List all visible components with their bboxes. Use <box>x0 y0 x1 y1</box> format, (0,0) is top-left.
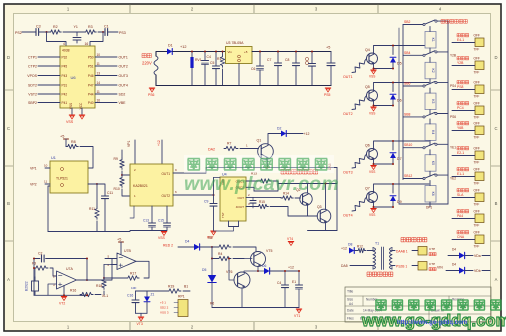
capacitor C9 electrolytic <box>311 52 313 64</box>
resistor R2 <box>49 30 61 34</box>
svg-text:U1: U1 <box>51 156 56 160</box>
svg-text:Y6B: Y6B <box>457 126 464 130</box>
node B <box>102 31 104 33</box>
svg-text:TLP521: TLP521 <box>56 177 68 181</box>
wire emitter <box>373 101 375 106</box>
wire gnd rail U1 <box>48 231 130 233</box>
svg-text:VSS: VSS <box>369 75 375 79</box>
wire gnd rail <box>156 85 331 87</box>
pad E1-1 <box>475 172 484 181</box>
svg-text:TFF: TFF <box>474 182 480 186</box>
resistor R19 <box>167 289 181 293</box>
svg-text:R9: R9 <box>114 157 118 161</box>
U6 right pins OUT1 OUT2 OUT3 OUT4 SD2 VBE <box>95 56 117 58</box>
wire mesh bottom <box>399 203 448 205</box>
relay K5 <box>425 155 436 172</box>
svg-text:SD2 2: SD2 2 <box>160 306 169 310</box>
svg-text:4OUT: 4OUT <box>236 205 244 209</box>
diode D6 <box>390 94 396 99</box>
svg-text:TFF: TFF <box>474 245 480 249</box>
pad E2-1 <box>475 151 484 160</box>
svg-text:E1: E1 <box>292 280 296 284</box>
wire <box>136 312 148 314</box>
U1 right pin <box>88 183 97 185</box>
svg-text:R6: R6 <box>210 302 214 306</box>
diode VD4 <box>459 267 465 273</box>
pad SLA <box>475 193 484 202</box>
svg-text:+5: +5 <box>244 50 248 54</box>
ground VT1 <box>296 308 302 310</box>
svg-text:C: C <box>7 126 10 131</box>
connector label E1-1 <box>457 168 469 171</box>
wire <box>270 270 299 272</box>
ground PS6 <box>149 87 155 89</box>
trimmer RP1 <box>178 300 188 317</box>
svg-text:SB8: SB8 <box>404 112 411 116</box>
svg-text:CTP: CTP <box>429 262 435 266</box>
svg-text:+12: +12 <box>157 140 161 146</box>
transistor Q1 <box>258 144 274 160</box>
wire to pad PA4 <box>452 218 475 220</box>
wire <box>90 32 103 46</box>
svg-text:PS2: PS2 <box>15 31 22 35</box>
svg-text:OFF: OFF <box>474 34 480 38</box>
svg-text:10: 10 <box>97 53 101 57</box>
wire T1 sec2 <box>392 265 395 267</box>
resistor R15 <box>257 204 268 208</box>
diode D5 vertical <box>211 259 213 277</box>
ground VSS U5 <box>161 231 167 233</box>
svg-text:D1: D1 <box>168 44 173 48</box>
ground PS7 <box>211 230 217 232</box>
resistor R18 <box>102 278 106 289</box>
svg-text:VSS: VSS <box>66 120 74 124</box>
wire <box>161 140 163 164</box>
capacitor C13 <box>149 222 156 224</box>
base resistor Q6 <box>352 156 365 168</box>
wire <box>80 147 93 169</box>
svg-text:SB4: SB4 <box>404 51 411 55</box>
wire U7A pwr <box>63 286 65 296</box>
wire emitter <box>373 202 375 207</box>
svg-text:OUT2: OUT2 <box>161 194 170 198</box>
red text 信号发生器 <box>367 272 393 276</box>
svg-text:VSS: VSS <box>369 112 375 116</box>
wire +12 rail <box>173 51 226 53</box>
U5 right pin OUT2 <box>173 194 186 196</box>
svg-text:C6: C6 <box>251 67 255 71</box>
svg-text:B2022: B2022 <box>25 281 29 291</box>
wire long horizontal <box>206 167 337 169</box>
connector label SLA <box>457 189 469 192</box>
wire <box>97 184 105 196</box>
svg-text:TFF: TFF <box>474 71 480 75</box>
svg-text:P43: P43 <box>62 74 68 78</box>
varistor RV1 <box>190 57 193 68</box>
svg-text:YE2: YE2 <box>450 177 456 181</box>
svg-text:P31: P31 <box>62 83 68 87</box>
connector label PC4 <box>457 102 469 105</box>
svg-text:KA2B021: KA2B021 <box>133 184 148 188</box>
diode D7 <box>390 153 396 158</box>
wire to pad SLA <box>452 197 475 199</box>
svg-text:+12: +12 <box>288 266 294 270</box>
U4 bottom pins <box>228 221 230 227</box>
relay K1 <box>425 32 436 49</box>
wire to pad Y2B <box>452 65 475 67</box>
svg-text:VBE: VBE <box>119 101 127 105</box>
svg-text:VST2: VST2 <box>28 92 37 96</box>
svg-text:DAAB 1: DAAB 1 <box>396 249 408 253</box>
capacitor C15 <box>164 222 171 224</box>
svg-text:B: B <box>7 201 10 206</box>
svg-text:OFF: OFF <box>474 102 480 106</box>
svg-text:P50: P50 <box>88 55 94 59</box>
svg-text:A: A <box>7 277 10 282</box>
wire to pad PC4 <box>452 110 475 112</box>
wire <box>47 32 67 46</box>
pad E4-1 <box>475 38 484 47</box>
svg-text:SB10: SB10 <box>404 143 412 147</box>
diode D6 <box>258 270 264 272</box>
transistor Q7 <box>367 192 378 203</box>
ground <box>371 106 377 108</box>
svg-text:http://www.go-gddq.com: http://www.go-gddq.com <box>397 320 467 326</box>
wire bottom run <box>308 230 338 232</box>
svg-text:PS6: PS6 <box>450 115 456 119</box>
svg-text:D4: D4 <box>452 247 456 251</box>
svg-text:PS3: PS3 <box>119 31 126 35</box>
transistor VT5 <box>251 252 266 267</box>
svg-text:P41: P41 <box>62 101 68 105</box>
svg-text:VSS 3: VSS 3 <box>160 311 169 315</box>
svg-text:R11: R11 <box>89 207 95 211</box>
base resistor Q7 <box>352 199 365 211</box>
svg-text:E2-1: E2-1 <box>457 151 464 155</box>
op-amp U7B <box>117 253 136 270</box>
svg-text:VDa: VDa <box>474 254 481 258</box>
pad CNA <box>475 235 484 244</box>
svg-text:Y2B: Y2B <box>457 61 464 65</box>
svg-text:OFF: OFF <box>474 210 480 214</box>
AC source label <box>142 54 151 58</box>
regulator U3 78L05A <box>226 47 253 64</box>
svg-text:TFF: TFF <box>474 203 480 207</box>
wire feedback <box>86 259 88 281</box>
svg-text:TFF: TFF <box>474 48 480 52</box>
capacitor C17 <box>284 271 286 285</box>
svg-text:R15: R15 <box>259 200 265 204</box>
connector label E4-1 <box>457 34 469 37</box>
svg-text:Y2B: Y2B <box>450 53 456 57</box>
wire <box>152 227 167 231</box>
svg-text:B: B <box>495 201 498 206</box>
svg-text:P40: P40 <box>88 101 94 105</box>
wire U7A out <box>77 279 88 281</box>
fuse F1 <box>154 56 158 75</box>
capacitor C10a <box>330 52 332 64</box>
svg-text:OUT2: OUT2 <box>343 112 353 116</box>
svg-text:PS2B 1: PS2B 1 <box>396 264 407 268</box>
wire <box>134 140 136 164</box>
pad CN2 <box>418 262 427 271</box>
wire to pad E1-1 <box>452 176 475 178</box>
wire collector <box>374 46 430 54</box>
watermark center line1 <box>184 155 334 173</box>
svg-text:SLA: SLA <box>457 193 464 197</box>
svg-text:PS6: PS6 <box>148 93 155 97</box>
svg-text:R19: R19 <box>168 285 174 289</box>
svg-text:K6: K6 <box>431 192 435 196</box>
svg-text:RV1: RV1 <box>195 58 202 62</box>
svg-text:P45: P45 <box>62 64 68 68</box>
svg-text:C9: C9 <box>204 200 208 204</box>
svg-text:OFF: OFF <box>474 122 480 126</box>
svg-text:OFF: OFF <box>474 168 480 172</box>
U1 left pins VP1 VP2 <box>45 167 50 169</box>
pad PS8 <box>475 85 484 94</box>
svg-text:OUT1: OUT1 <box>343 75 353 79</box>
wire <box>39 31 49 33</box>
svg-text:VP1: VP1 <box>127 140 131 147</box>
svg-text:U6: U6 <box>71 75 77 80</box>
wire +5 rail <box>252 51 331 53</box>
svg-text:CTP: CTP <box>429 247 435 251</box>
svg-text:OUT: OUT <box>237 196 244 200</box>
svg-text:PC4: PC4 <box>457 106 464 110</box>
svg-text:D: D <box>494 55 497 60</box>
svg-text:220V: 220V <box>142 61 152 66</box>
connector label CNA <box>457 231 469 234</box>
svg-text:C: C <box>494 126 497 131</box>
svg-text:D6: D6 <box>262 264 266 268</box>
wire <box>200 246 213 248</box>
svg-text:D8: D8 <box>348 243 352 247</box>
wire U7B out <box>136 261 149 278</box>
wire diode branch <box>392 184 394 193</box>
svg-text:R12: R12 <box>357 245 363 249</box>
wire <box>240 148 259 150</box>
wire VT5 collector <box>244 258 252 260</box>
wire U1 bottom <box>48 186 50 232</box>
wire ref rail <box>136 290 169 292</box>
svg-text:SB6: SB6 <box>404 82 411 86</box>
svg-text:D: D <box>7 55 10 60</box>
svg-text:VP2: VP2 <box>30 183 37 187</box>
power +5 U7B <box>119 241 124 243</box>
wire U7B in+ <box>105 258 117 260</box>
svg-text:P47: P47 <box>88 83 94 87</box>
svg-text:C16: C16 <box>127 294 133 298</box>
wire Q1 collector <box>268 134 281 145</box>
svg-text:4038: 4038 <box>62 49 70 53</box>
diode D1 <box>167 49 172 55</box>
wire <box>465 270 474 272</box>
svg-text:SD2: SD2 <box>119 92 126 96</box>
svg-text:C11: C11 <box>107 191 113 195</box>
wire diode branch <box>392 141 394 150</box>
wire OUT2 run <box>186 194 214 196</box>
svg-text:Vin: Vin <box>228 50 233 54</box>
resistor R12 <box>355 250 358 252</box>
svg-text:R18: R18 <box>96 284 102 288</box>
base resistor Q5 <box>352 98 365 110</box>
transistor VT6 <box>234 272 250 288</box>
svg-text:PS8: PS8 <box>457 85 464 89</box>
svg-text:K5: K5 <box>431 161 435 165</box>
svg-text:CNA: CNA <box>457 235 465 239</box>
svg-text:OUT2: OUT2 <box>119 64 128 68</box>
svg-text:VPOS: VPOS <box>27 74 37 78</box>
watermark bottom line1 <box>376 300 387 310</box>
capacitor C16 <box>135 291 137 300</box>
capacitor C4 <box>204 52 206 61</box>
svg-text:Q1: Q1 <box>257 139 262 143</box>
wire <box>22 31 36 33</box>
wire VT5 emitter <box>244 267 258 273</box>
wire Q3 emitter <box>325 223 327 231</box>
diode D2 <box>281 131 286 137</box>
svg-text:YE1: YE1 <box>450 146 456 150</box>
wire <box>212 246 217 248</box>
svg-text:TFF: TFF <box>474 116 480 120</box>
capacitor C5 <box>215 52 217 67</box>
svg-text:Date: Date <box>347 309 354 313</box>
wire <box>233 247 256 252</box>
svg-text:P32: P32 <box>62 55 68 59</box>
svg-text:C2: C2 <box>38 252 42 256</box>
wire <box>412 265 418 267</box>
ground PS5 <box>325 87 331 89</box>
resistor R16 <box>80 294 87 296</box>
svg-text:TFF: TFF <box>474 161 480 165</box>
svg-text:B1: B1 <box>184 285 188 289</box>
svg-text:OFF: OFF <box>474 189 480 193</box>
wire to pad E2-1 <box>452 155 475 157</box>
relay K3 <box>425 93 436 110</box>
connector label Y2B <box>457 57 469 60</box>
wire <box>63 31 84 33</box>
svg-text:+5: +5 <box>60 135 64 139</box>
wire to U7B <box>87 259 117 281</box>
svg-text:SB12: SB12 <box>404 174 412 178</box>
svg-text:SB2: SB2 <box>404 20 411 24</box>
svg-text:+5: +5 <box>326 46 330 50</box>
svg-text:K1: K1 <box>431 38 435 42</box>
diode D5 <box>390 57 396 62</box>
U4 pin 4OUT <box>246 206 257 208</box>
svg-text:+12: +12 <box>341 247 347 251</box>
diode VD3 <box>459 252 465 258</box>
resistor R5 <box>217 245 231 249</box>
svg-text:SDT2: SDT2 <box>28 83 37 87</box>
svg-text:14: 14 <box>97 81 101 85</box>
connector label PS8 <box>457 81 469 84</box>
svg-text:U7B: U7B <box>124 249 131 253</box>
red text 风速选择开关 <box>441 20 467 24</box>
capacitor C14 <box>252 197 254 200</box>
svg-text:VSS: VSS <box>158 236 166 240</box>
svg-text:P46: P46 <box>88 74 94 78</box>
svg-text:C15: C15 <box>158 219 164 223</box>
svg-text:4: 4 <box>63 42 65 46</box>
red text 电脑机空调接桩 <box>281 170 318 174</box>
svg-text:VSS: VSS <box>369 170 375 174</box>
resistor R7 <box>224 146 238 150</box>
svg-text:E1-1: E1-1 <box>457 172 464 176</box>
wire VT6 emitter <box>241 288 243 308</box>
svg-text:R5: R5 <box>208 236 212 240</box>
resistor R13 <box>253 180 259 182</box>
pad PA4 <box>475 214 484 223</box>
svg-text:Q3: Q3 <box>317 205 322 209</box>
capacitor C3 <box>36 29 39 36</box>
svg-text:Q7: Q7 <box>365 187 370 191</box>
svg-text:R10: R10 <box>114 187 120 191</box>
svg-text:OFF: OFF <box>474 81 480 85</box>
resistor R10 <box>120 176 124 187</box>
wire diode branch <box>392 46 394 55</box>
wire to pad PS8 <box>452 89 475 91</box>
ground VT3 <box>138 316 144 318</box>
title block <box>345 287 491 322</box>
transistor Q3 <box>317 209 331 223</box>
wire <box>108 31 118 33</box>
wire U3 gnd <box>238 64 240 86</box>
U5 right pin OUT1 <box>173 172 186 174</box>
svg-text:VSS: VSS <box>369 213 375 217</box>
wire <box>253 196 281 198</box>
svg-text:K3: K3 <box>431 99 435 103</box>
svg-text:VT3: VT3 <box>137 322 143 326</box>
svg-text:R8: R8 <box>71 140 76 144</box>
relay K2 <box>425 62 436 79</box>
wire <box>155 75 157 86</box>
svg-text:10: 10 <box>44 164 48 168</box>
U6 left pins CTP1 CTP2 VPOS SDT2 VST2 SBP2 <box>38 56 60 58</box>
wire opamp in2 <box>48 284 57 295</box>
wire to pad E4-1 <box>452 42 475 44</box>
svg-text:R17: R17 <box>130 272 136 276</box>
connector label E2-1 <box>457 147 469 150</box>
svg-text:+12: +12 <box>304 132 310 136</box>
svg-text:R2: R2 <box>53 25 58 29</box>
svg-text:C4: C4 <box>277 281 281 285</box>
svg-text:D4: D4 <box>452 262 456 266</box>
diode D9 <box>390 196 396 201</box>
svg-text:OUT1: OUT1 <box>119 55 128 59</box>
svg-text:OUT4: OUT4 <box>119 83 128 87</box>
svg-text:PS4: PS4 <box>450 84 456 88</box>
svg-text:TST: TST <box>221 212 225 218</box>
U1 left pin VP2 <box>45 183 50 185</box>
svg-text:+12: +12 <box>180 45 186 49</box>
wire right bus <box>447 21 449 204</box>
svg-text:Q5: Q5 <box>365 85 370 89</box>
svg-text:U7A: U7A <box>66 267 73 271</box>
resistor R9 <box>121 150 123 158</box>
svg-text:CTP1: CTP1 <box>28 55 37 59</box>
svg-text:VT5: VT5 <box>266 249 272 253</box>
svg-text:OUT4: OUT4 <box>343 214 353 218</box>
resistor R14 <box>281 196 293 200</box>
capacitor C6 <box>259 52 261 67</box>
wire gnd rail opamp <box>34 294 87 296</box>
svg-text:13: 13 <box>97 72 101 76</box>
zone ticks <box>129 4 131 331</box>
wire <box>156 52 167 57</box>
wire U4 vdd cap <box>214 177 221 179</box>
